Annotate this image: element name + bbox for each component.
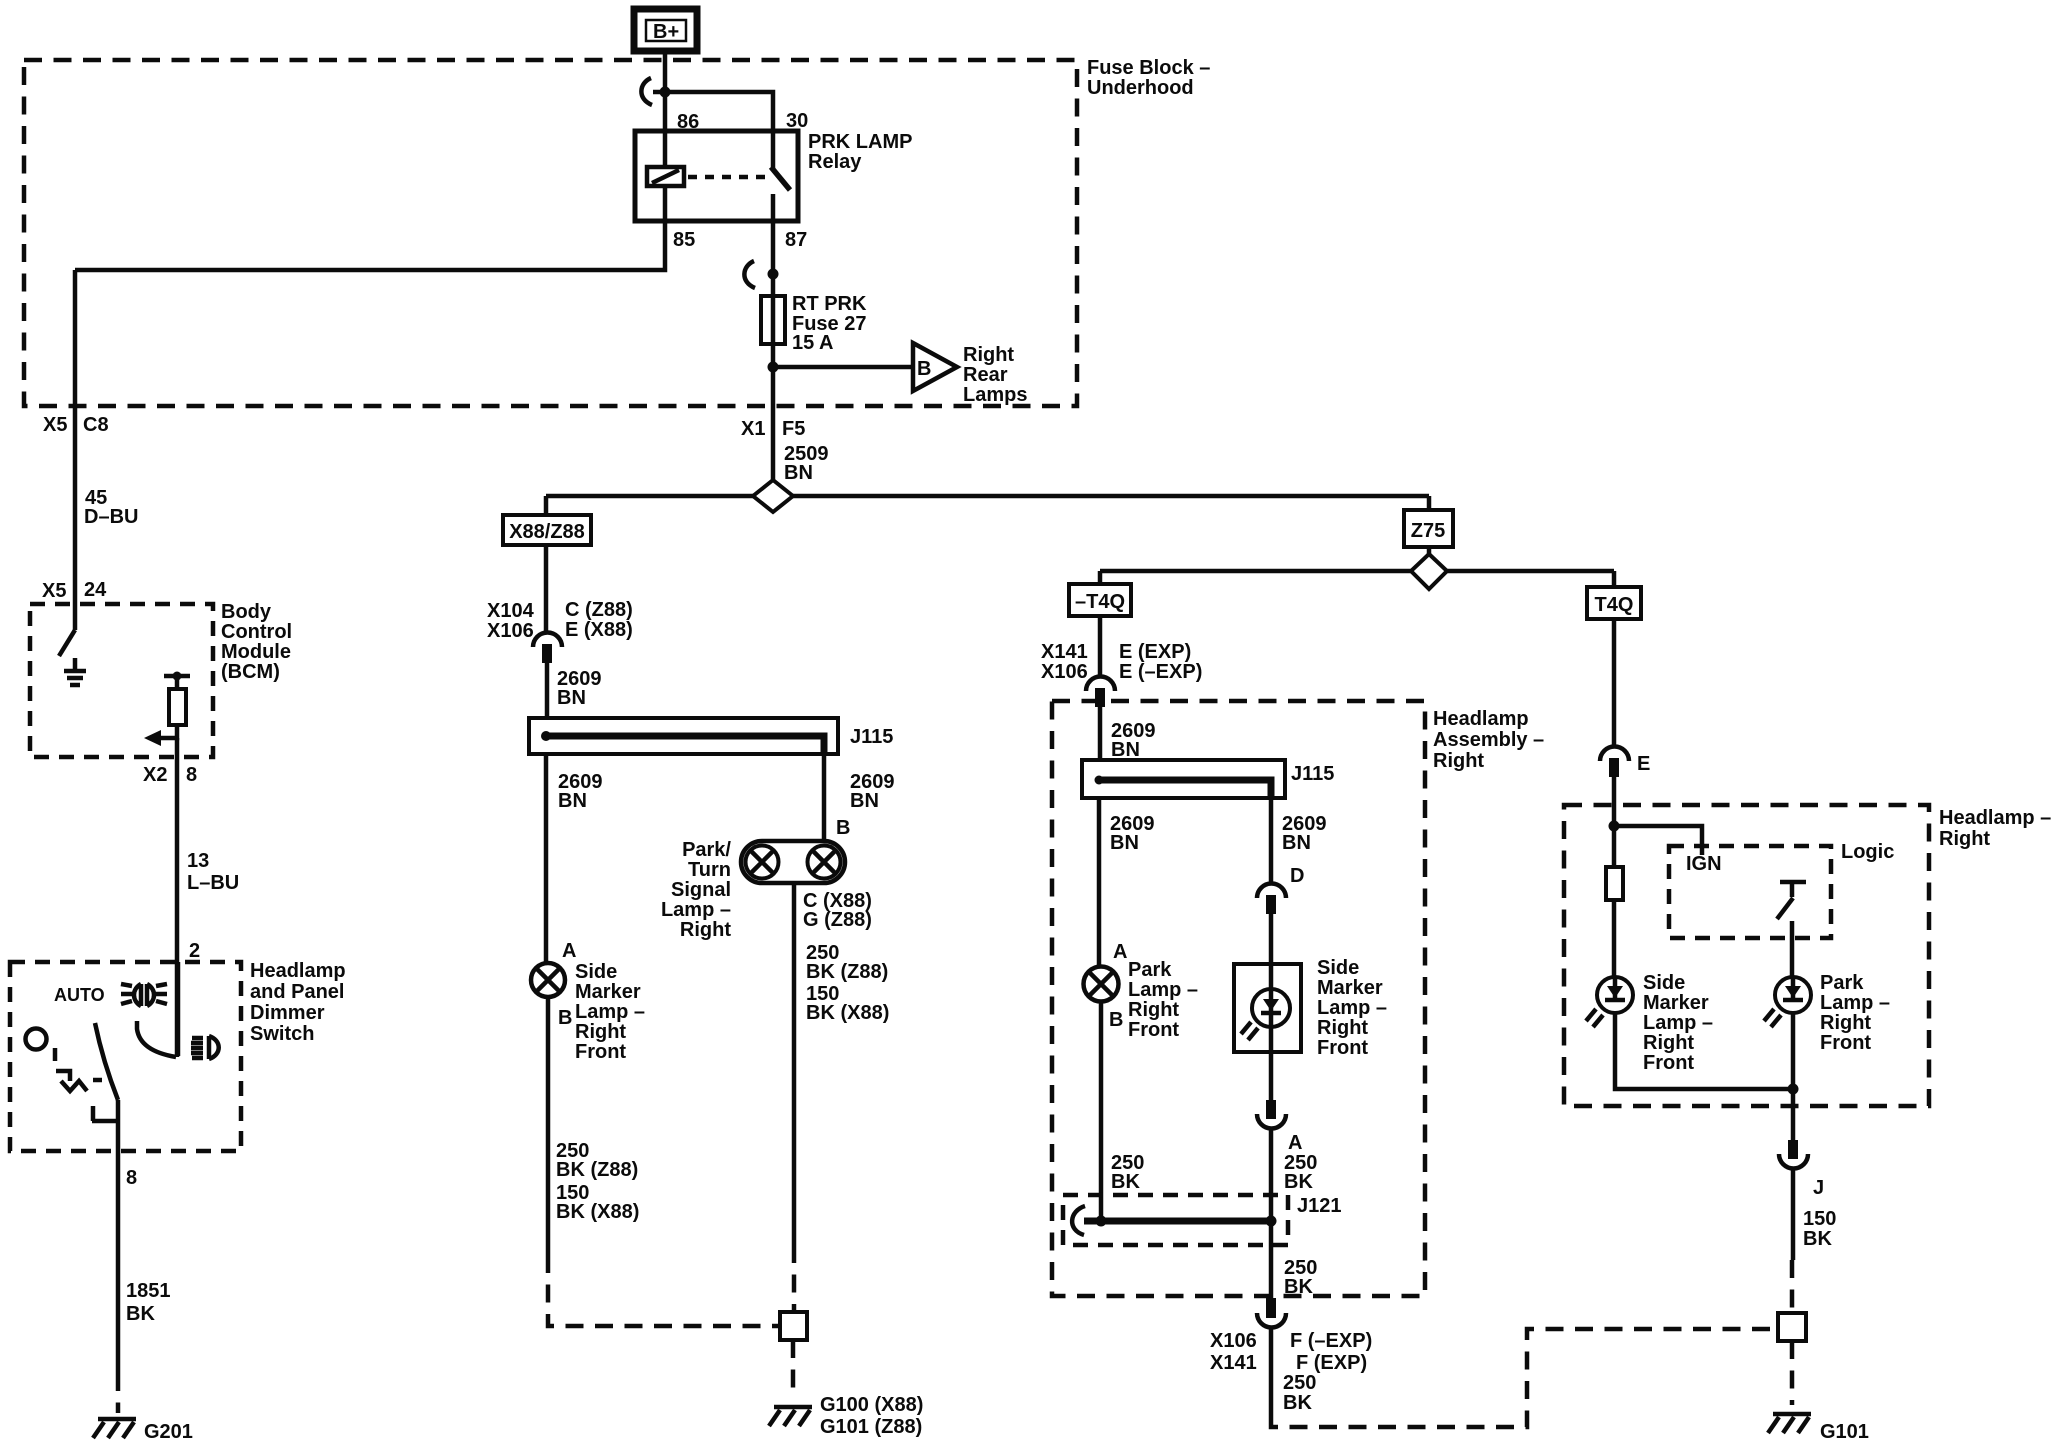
svg-text:F5: F5 bbox=[782, 418, 805, 440]
svg-text:X141: X141 bbox=[1210, 1352, 1257, 1374]
splice diamond below Z75 bbox=[1427, 547, 1432, 554]
wire jumper from bus to relay pin 30 bbox=[653, 92, 773, 131]
svg-text:Right: Right bbox=[575, 1021, 626, 1043]
svg-text:1851: 1851 bbox=[126, 1280, 171, 1302]
svg-text:J121: J121 bbox=[1297, 1195, 1342, 1217]
svg-text:Side: Side bbox=[575, 961, 617, 983]
junction node at B+ wire and jumper bbox=[660, 87, 671, 98]
svg-text:BN: BN bbox=[850, 790, 879, 812]
svg-text:Assembly –: Assembly – bbox=[1433, 729, 1544, 751]
side marker LED symbol bbox=[1241, 964, 1290, 1052]
svg-text:X106: X106 bbox=[1210, 1330, 1257, 1352]
svg-text:Side: Side bbox=[1317, 957, 1359, 979]
svg-text:E (X88): E (X88) bbox=[565, 619, 633, 641]
wire down to connector E bbox=[1612, 619, 1617, 748]
splice pack J115 (left) bbox=[529, 718, 838, 754]
svg-text:A: A bbox=[562, 940, 576, 962]
harness tag Z75 bbox=[1404, 510, 1453, 547]
fuse block bus clip above RT PRK fuse bbox=[744, 261, 755, 288]
svg-text:Lamps: Lamps bbox=[963, 384, 1027, 406]
svg-text:Underhood: Underhood bbox=[1087, 77, 1194, 99]
inline connector X141/X106 bbox=[1086, 677, 1115, 708]
wire J115 left output down bbox=[544, 754, 549, 963]
wire down to forward harness bbox=[1269, 1328, 1274, 1416]
svg-text:BN: BN bbox=[1110, 832, 1139, 854]
svg-text:X5: X5 bbox=[42, 580, 66, 602]
side marker lamp right front (bulb) bbox=[531, 963, 565, 997]
svg-text:24: 24 bbox=[84, 579, 107, 601]
svg-text:X106: X106 bbox=[1041, 661, 1088, 683]
inline connector E bbox=[1600, 747, 1629, 778]
svg-text:Right: Right bbox=[1820, 1012, 1871, 1034]
svg-text:Logic: Logic bbox=[1841, 841, 1894, 863]
relay switch blade bbox=[771, 167, 790, 190]
BCM internal resistor bbox=[175, 676, 180, 689]
svg-text:J115: J115 bbox=[850, 726, 893, 748]
svg-text:Lamp –: Lamp – bbox=[1820, 992, 1890, 1014]
svg-text:BK (Z88): BK (Z88) bbox=[806, 961, 888, 983]
svg-text:Right: Right bbox=[1939, 828, 1990, 850]
dashed wire to G101 bbox=[1790, 1341, 1795, 1405]
wire down to -T4Q bbox=[1098, 571, 1103, 584]
svg-text:BK: BK bbox=[126, 1303, 155, 1325]
wire pin 87 down to fuse bbox=[771, 221, 776, 296]
svg-text:Relay: Relay bbox=[808, 151, 862, 173]
svg-text:Right: Right bbox=[680, 919, 731, 941]
wire into splice pack J115 bbox=[545, 663, 550, 718]
splice diamond S-PRK bbox=[753, 480, 793, 512]
svg-text:X1: X1 bbox=[741, 418, 765, 440]
svg-text:BK (X88): BK (X88) bbox=[556, 1201, 639, 1223]
battery feed B+ terminal box bbox=[634, 9, 697, 51]
wire J115 left output down to park lamp bbox=[1097, 798, 1102, 967]
forward lamp harness dashed path to G101 bbox=[1271, 1329, 1776, 1427]
Headlamp Assembly Right dashed box bbox=[1052, 701, 1425, 1296]
svg-text:B+: B+ bbox=[653, 21, 679, 43]
low beam headlamp icon bbox=[191, 1036, 219, 1059]
junction node to right rear lamps feed bbox=[768, 362, 779, 373]
switch arm curved to pin 2 bbox=[137, 1021, 176, 1057]
Logic dashed box bbox=[1669, 846, 1831, 938]
svg-text:X2: X2 bbox=[143, 764, 167, 786]
svg-text:8: 8 bbox=[186, 764, 197, 786]
svg-text:BK (X88): BK (X88) bbox=[806, 1002, 889, 1024]
svg-text:Headlamp: Headlamp bbox=[250, 960, 346, 982]
dashed wire to G201 bbox=[116, 1373, 121, 1413]
BCM low-side driver arrow bbox=[158, 725, 177, 738]
svg-text:BK: BK bbox=[1803, 1228, 1832, 1250]
svg-text:Right: Right bbox=[1643, 1032, 1694, 1054]
svg-text:Dimmer: Dimmer bbox=[250, 1002, 325, 1024]
svg-text:Headlamp –: Headlamp – bbox=[1939, 807, 2051, 829]
wire down to T4Q bbox=[1612, 571, 1617, 587]
svg-text:BN: BN bbox=[784, 462, 813, 484]
relay coil wire through bbox=[663, 131, 668, 221]
svg-text:Marker: Marker bbox=[1317, 977, 1383, 999]
wire BCM output down bbox=[175, 738, 180, 1057]
svg-text:Side: Side bbox=[1643, 972, 1685, 994]
side marker LED lamp right front bbox=[1586, 977, 1633, 1027]
svg-text:150: 150 bbox=[1803, 1208, 1836, 1230]
harness tag X88/Z88 bbox=[503, 515, 591, 545]
svg-text:PRK LAMP: PRK LAMP bbox=[808, 131, 912, 153]
svg-text:and Panel: and Panel bbox=[250, 981, 344, 1003]
dashed wire to ground bbox=[791, 1340, 796, 1398]
relay coil bbox=[647, 167, 684, 186]
svg-text:(BCM): (BCM) bbox=[221, 661, 280, 683]
wire pin 2 into switch bbox=[176, 962, 181, 1056]
dashed wire to ground splice bbox=[1790, 1260, 1795, 1312]
svg-text:T4Q: T4Q bbox=[1595, 594, 1634, 616]
dashed harness path to ground splice bbox=[548, 1255, 778, 1326]
junction node above fuse bbox=[768, 269, 779, 280]
wire below fuse bbox=[771, 344, 776, 480]
svg-text:G201: G201 bbox=[144, 1421, 193, 1443]
svg-text:Headlamp: Headlamp bbox=[1433, 708, 1529, 730]
harness tag T4Q bbox=[1587, 587, 1641, 619]
svg-text:J: J bbox=[1813, 1177, 1824, 1199]
svg-text:X104: X104 bbox=[487, 600, 535, 622]
svg-text:Switch: Switch bbox=[250, 1023, 314, 1045]
svg-text:BK (Z88): BK (Z88) bbox=[556, 1159, 638, 1181]
resistor in side marker feed bbox=[1606, 867, 1623, 900]
fuse block bus clip at relay coil feed bbox=[641, 78, 652, 105]
ground splice block right bbox=[1778, 1313, 1806, 1341]
svg-text:L–BU: L–BU bbox=[187, 872, 239, 894]
svg-text:BN: BN bbox=[1282, 832, 1311, 854]
svg-text:G101: G101 bbox=[1820, 1421, 1869, 1443]
J121 bus bar bbox=[1084, 1218, 1271, 1225]
branch horizontal wire bbox=[1100, 569, 1614, 574]
wire into headlamp right bbox=[1612, 777, 1617, 868]
svg-text:Park: Park bbox=[1128, 959, 1172, 981]
svg-text:Marker: Marker bbox=[1643, 992, 1709, 1014]
svg-text:Park: Park bbox=[1820, 972, 1864, 994]
wire J115 right output down bbox=[1269, 798, 1274, 884]
ground G100 (X88) G101 (Z88) bbox=[769, 1407, 812, 1426]
svg-text:BN: BN bbox=[558, 790, 587, 812]
BCM driver terminal bar bbox=[164, 674, 190, 679]
svg-text:D: D bbox=[1290, 865, 1304, 887]
inline connector A bbox=[1257, 1100, 1286, 1129]
wire park lamp ground lead bbox=[1099, 1001, 1104, 1221]
svg-text:Control: Control bbox=[221, 621, 292, 643]
OFF position circle bbox=[26, 1029, 47, 1050]
svg-text:E: E bbox=[1637, 753, 1650, 775]
RT PRK Fuse 27 15A bbox=[761, 296, 785, 344]
svg-text:Signal: Signal bbox=[671, 879, 731, 901]
Headlamp Right dashed box bbox=[1564, 805, 1929, 1106]
svg-text:15 A: 15 A bbox=[792, 332, 834, 354]
svg-text:B: B bbox=[558, 1007, 572, 1029]
svg-text:BN: BN bbox=[1111, 739, 1140, 761]
wire into BCM bbox=[73, 628, 78, 633]
svg-text:BK: BK bbox=[1284, 1171, 1313, 1193]
wire down into J121 bbox=[1269, 1129, 1274, 1221]
relay actuation dashed link bbox=[688, 175, 766, 180]
svg-text:Front: Front bbox=[1643, 1052, 1694, 1074]
svg-text:Fuse Block –: Fuse Block – bbox=[1087, 57, 1210, 79]
svg-text:Front: Front bbox=[575, 1041, 626, 1063]
svg-text:F (EXP): F (EXP) bbox=[1296, 1352, 1367, 1374]
svg-text:Lamp –: Lamp – bbox=[661, 899, 731, 921]
svg-text:Front: Front bbox=[1820, 1032, 1871, 1054]
svg-text:RT PRK: RT PRK bbox=[792, 293, 867, 315]
J121 bus clip bbox=[1072, 1206, 1085, 1235]
wire resistor down to LED bbox=[1612, 900, 1617, 977]
svg-text:E (EXP): E (EXP) bbox=[1119, 641, 1191, 663]
svg-text:BK: BK bbox=[1111, 1171, 1140, 1193]
wire main feed into Z75 tag bbox=[1427, 496, 1432, 510]
svg-text:AUTO: AUTO bbox=[54, 985, 105, 1005]
svg-text:B: B bbox=[1109, 1009, 1123, 1031]
svg-text:Right: Right bbox=[1317, 1017, 1368, 1039]
off-page arrow B right rear lamps bbox=[913, 343, 957, 391]
svg-text:Park/: Park/ bbox=[682, 839, 731, 861]
wire down to connector bbox=[1098, 616, 1103, 677]
splice pack J115 (right) bbox=[1082, 760, 1285, 798]
wire pin 85 down and across to BCM column bbox=[75, 221, 665, 270]
svg-text:13: 13 bbox=[187, 850, 209, 872]
relay pin 87 lead bbox=[771, 194, 776, 221]
fuse block underhood dashed box bbox=[24, 60, 1077, 406]
svg-text:2: 2 bbox=[189, 940, 200, 962]
svg-text:B: B bbox=[917, 358, 931, 380]
output contact bbox=[92, 1106, 119, 1121]
svg-text:Marker: Marker bbox=[575, 981, 641, 1003]
Headlamp and Panel Dimmer Switch dashed box bbox=[10, 962, 241, 1151]
park/turn signal lamp (dual filament) bbox=[741, 841, 845, 883]
logic switch contact bbox=[1777, 882, 1806, 919]
svg-text:Front: Front bbox=[1128, 1019, 1179, 1041]
svg-text:Lamp –: Lamp – bbox=[575, 1001, 645, 1023]
svg-text:G100 (X88): G100 (X88) bbox=[820, 1394, 923, 1416]
wire side marker LED down and across bbox=[1615, 1013, 1793, 1089]
inline connector J bbox=[1779, 1140, 1808, 1169]
park lamp right front (bulb) bbox=[1084, 967, 1119, 1002]
svg-text:Right: Right bbox=[963, 344, 1014, 366]
svg-text:Front: Front bbox=[1317, 1037, 1368, 1059]
harness tag -T4Q bbox=[1069, 584, 1131, 616]
wire B+ down into fuse block bbox=[663, 51, 668, 131]
svg-text:Lamp –: Lamp – bbox=[1317, 997, 1387, 1019]
svg-text:C8: C8 bbox=[83, 414, 109, 436]
wire park LED down bbox=[1791, 1013, 1796, 1140]
svg-text:85: 85 bbox=[673, 229, 695, 251]
svg-text:BK: BK bbox=[1283, 1392, 1312, 1414]
ground G201 bbox=[93, 1419, 136, 1438]
inline connector F X106/X141 bbox=[1257, 1298, 1286, 1328]
wire J down bbox=[1791, 1169, 1796, 1260]
wire to right rear lamps arrow bbox=[773, 365, 912, 370]
svg-text:G (Z88): G (Z88) bbox=[803, 909, 872, 931]
wire down into side marker box bbox=[1269, 914, 1274, 964]
svg-text:8: 8 bbox=[126, 1167, 137, 1189]
auto contact dashes bbox=[53, 1048, 58, 1061]
svg-text:X5: X5 bbox=[43, 414, 67, 436]
svg-text:F (–EXP): F (–EXP) bbox=[1290, 1330, 1372, 1352]
auto position contact zigzag bbox=[56, 1071, 87, 1091]
svg-text:BN: BN bbox=[557, 687, 586, 709]
svg-text:X141: X141 bbox=[1041, 641, 1088, 663]
svg-text:Lamp –: Lamp – bbox=[1643, 1012, 1713, 1034]
BCM input switch blade (open) bbox=[59, 630, 75, 656]
wire switch output down bbox=[116, 1100, 121, 1373]
dimmer switch blade bbox=[95, 1023, 118, 1100]
ground splice block G100/G101 bbox=[780, 1312, 807, 1340]
wire left column down to X5 C8 bbox=[73, 270, 78, 630]
headlamp on icon bbox=[121, 984, 167, 1006]
svg-text:G101 (Z88): G101 (Z88) bbox=[820, 1416, 922, 1438]
svg-text:D–BU: D–BU bbox=[84, 506, 138, 528]
svg-text:B: B bbox=[836, 817, 850, 839]
splice J121 dashed box bbox=[1063, 1195, 1288, 1245]
svg-text:C (Z88): C (Z88) bbox=[565, 599, 633, 621]
wire J121 output down bbox=[1269, 1221, 1274, 1298]
svg-text:–T4Q: –T4Q bbox=[1075, 591, 1125, 613]
svg-text:87: 87 bbox=[785, 229, 807, 251]
wire J115 right output down bbox=[822, 754, 827, 842]
ground G101 bbox=[1768, 1414, 1811, 1433]
svg-text:Turn: Turn bbox=[688, 859, 731, 881]
svg-text:Right: Right bbox=[1433, 750, 1484, 772]
wire side marker down to connector A bbox=[1269, 1052, 1274, 1100]
Body Control Module dashed box bbox=[30, 604, 213, 757]
wire down to inline connector bbox=[544, 545, 549, 633]
svg-text:Right: Right bbox=[1128, 999, 1179, 1021]
svg-text:BK: BK bbox=[1284, 1276, 1313, 1298]
svg-text:Module: Module bbox=[221, 641, 291, 663]
svg-text:J115: J115 bbox=[1291, 763, 1334, 785]
park lamp LED right front bbox=[1764, 977, 1811, 1027]
svg-text:250: 250 bbox=[1283, 1372, 1316, 1394]
wire into J115 right bbox=[1098, 707, 1103, 760]
svg-text:Body: Body bbox=[221, 601, 272, 623]
svg-text:IGN: IGN bbox=[1686, 853, 1722, 875]
inline connector D bbox=[1257, 884, 1286, 915]
svg-text:E (–EXP): E (–EXP) bbox=[1119, 661, 1202, 683]
svg-text:Rear: Rear bbox=[963, 364, 1008, 386]
main feed horizontal wire bbox=[546, 494, 1429, 499]
svg-text:A: A bbox=[1113, 941, 1127, 963]
relay pin 30 internal lead bbox=[771, 131, 776, 168]
svg-text:A: A bbox=[1288, 1132, 1302, 1154]
inline connector X104/X106 bbox=[533, 633, 562, 664]
wire side marker ground lead bbox=[546, 997, 551, 1255]
wire logic switch down to park LED bbox=[1790, 921, 1795, 977]
svg-text:X106: X106 bbox=[487, 620, 534, 642]
svg-text:X88/Z88: X88/Z88 bbox=[509, 521, 585, 543]
side marker LED lamp box bbox=[1234, 964, 1301, 1052]
wire down to X88/Z88 bbox=[544, 496, 549, 515]
wire branch to IGN logic bbox=[1614, 826, 1702, 855]
junction node LED returns bbox=[1788, 1084, 1799, 1095]
wire park/turn ground lead bbox=[792, 883, 797, 1245]
svg-text:Lamp –: Lamp – bbox=[1128, 979, 1198, 1001]
BCM internal ground bbox=[64, 658, 86, 685]
junction node to logic feed bbox=[1609, 821, 1620, 832]
PRK LAMP relay box bbox=[635, 131, 798, 221]
svg-text:Z75: Z75 bbox=[1411, 520, 1445, 542]
